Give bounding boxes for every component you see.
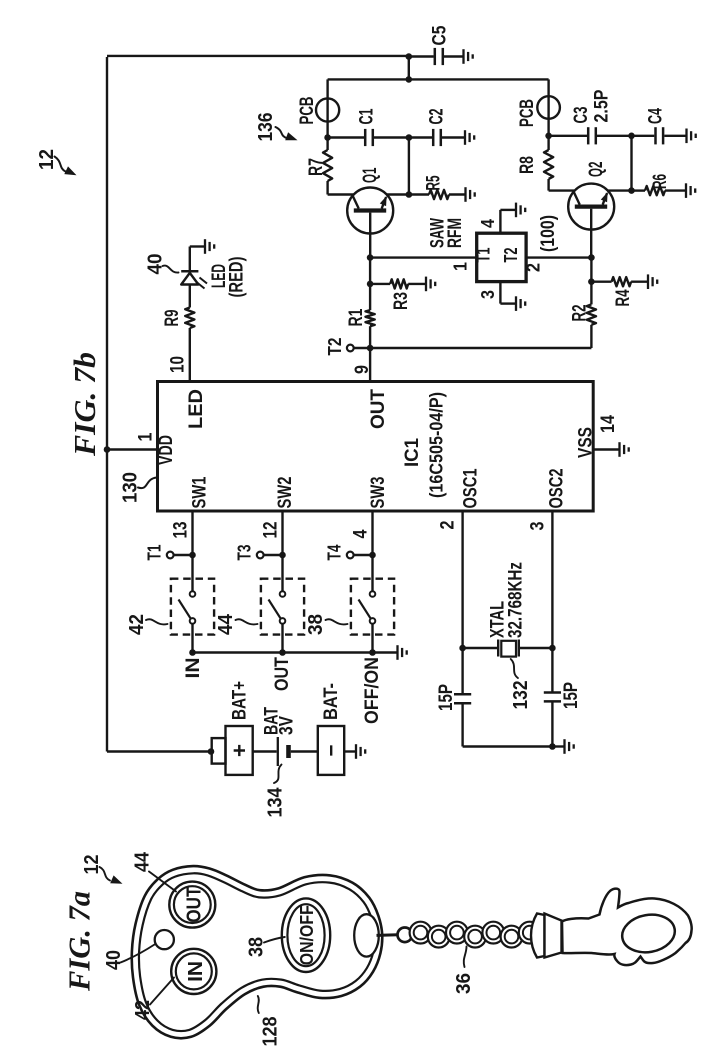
svg-text:2: 2 bbox=[524, 263, 544, 272]
node - C3/C4 junction bbox=[628, 133, 635, 140]
svg-text:Q2: Q2 bbox=[586, 162, 607, 178]
wire - Q1 base down bbox=[369, 213, 371, 258]
svg-text:−: − bbox=[318, 745, 343, 757]
capacitor C1 bbox=[364, 129, 367, 146]
svg-text:12: 12 bbox=[260, 522, 281, 539]
svg-text:OUT: OUT bbox=[368, 389, 389, 429]
svg-text:SW3: SW3 bbox=[368, 477, 389, 509]
terminal T4 bbox=[347, 552, 354, 559]
svg-text:T3: T3 bbox=[235, 545, 255, 561]
wire - SAW pin 2 line bbox=[526, 256, 591, 258]
svg-text:SW1: SW1 bbox=[189, 476, 210, 508]
battery BAT- box bbox=[318, 726, 344, 775]
node - R4 junction bbox=[588, 278, 595, 285]
ground - crystal bbox=[563, 739, 565, 754]
button IN (42) bbox=[171, 949, 216, 994]
node - T1 junction bbox=[189, 552, 196, 559]
transistor Q1 bbox=[347, 188, 393, 234]
svg-text:IN: IN bbox=[185, 961, 207, 982]
svg-text:C1: C1 bbox=[356, 108, 377, 124]
svg-text:12: 12 bbox=[81, 855, 103, 875]
svg-text:FIG. 7a: FIG. 7a bbox=[61, 891, 96, 992]
terminal T1 bbox=[167, 552, 174, 559]
svg-text:128: 128 bbox=[259, 1017, 281, 1047]
wire - IC pin to switch SW2/44 bbox=[281, 511, 283, 591]
node - T3 junction bbox=[279, 552, 286, 559]
svg-text:(RED): (RED) bbox=[226, 257, 247, 298]
svg-text:FIG. 7b: FIG. 7b bbox=[67, 352, 102, 457]
svg-text:OUT: OUT bbox=[184, 887, 206, 923]
svg-text:(100): (100) bbox=[538, 215, 559, 252]
node - rail/pin1 junction bbox=[104, 446, 111, 453]
node - OSC1/XTAL junction bbox=[459, 645, 466, 652]
wire - switch SW1/42 bottom bbox=[191, 624, 193, 653]
svg-text:2.5P: 2.5P bbox=[592, 89, 613, 122]
terminal T3 bbox=[257, 552, 264, 559]
wire - Q1 collector node line bbox=[328, 136, 364, 138]
svg-text:Q1: Q1 bbox=[360, 167, 381, 183]
wire - IC pin to switch SW1/42 bbox=[191, 511, 193, 591]
wire - C3/C4 node down bbox=[630, 136, 632, 191]
node - OSC2/XTAL junction bbox=[549, 645, 556, 652]
key fob body outer outline (128) bbox=[132, 866, 383, 1038]
node - T2/pin9 junction bbox=[367, 345, 374, 352]
svg-text:PCB: PCB bbox=[297, 97, 318, 125]
node - Q2 collector node bbox=[545, 133, 552, 140]
svg-text:PCB: PCB bbox=[517, 99, 538, 127]
resistor R7 bbox=[326, 138, 328, 151]
capacitor C5 bbox=[409, 55, 434, 57]
wire - switch common line bbox=[193, 651, 398, 653]
svg-text:3: 3 bbox=[528, 522, 549, 531]
switch SW2/44 dashed box bbox=[261, 579, 304, 635]
svg-text:40: 40 bbox=[145, 254, 167, 275]
wire - IC pin 2 (OSC1) bbox=[461, 511, 463, 694]
wire - BAT- to ground bbox=[344, 750, 356, 752]
ground - C4 bbox=[685, 129, 687, 144]
node - Q1 emitter node bbox=[406, 191, 413, 198]
wire - base node down bbox=[369, 258, 371, 284]
svg-text:1: 1 bbox=[136, 432, 157, 441]
wire - Q1 PCB coil drop bbox=[326, 79, 328, 137]
transistor Q2 bbox=[568, 184, 614, 230]
node - R3 junction bbox=[367, 281, 374, 288]
clasp body (lobster hook) bbox=[562, 889, 692, 965]
switch SW2/44 contacts bbox=[280, 591, 286, 597]
svg-text:IN: IN bbox=[183, 658, 204, 679]
wire - SAW pin 3 bbox=[499, 282, 501, 304]
svg-text:(16C505-04/P): (16C505-04/P) bbox=[426, 392, 446, 498]
svg-text:R8: R8 bbox=[517, 156, 538, 174]
wire - cell to BAT- bbox=[291, 750, 318, 752]
ground - battery bbox=[355, 744, 357, 759]
svg-text:R1: R1 bbox=[346, 308, 367, 326]
wire - second rail to Q1/Q2 branches bbox=[328, 78, 549, 80]
svg-text:3V: 3V bbox=[276, 716, 297, 735]
ground - SAW pin 3 bbox=[515, 296, 517, 311]
node - SW2/44 common junction bbox=[279, 649, 286, 656]
SAW resonator U1 box bbox=[477, 233, 526, 281]
resistor R2 bbox=[590, 282, 592, 305]
LED D1 (RED) bbox=[181, 273, 198, 285]
wire - LED to ground bbox=[189, 247, 191, 272]
wire - IC pin 14 (VSS) bbox=[593, 448, 619, 450]
inductor - PCB coil antenna (Q2) bbox=[537, 96, 560, 119]
wire - to C2 bbox=[409, 136, 432, 138]
key ring hole bbox=[354, 914, 379, 956]
svg-text:14: 14 bbox=[598, 415, 619, 433]
wire - IC pin to switch SW3/38 bbox=[371, 511, 373, 591]
resistor R6 bbox=[632, 189, 646, 191]
ground - R5 bbox=[464, 187, 466, 202]
svg-text:R2: R2 bbox=[570, 305, 591, 322]
switch SW3/38 dashed box bbox=[351, 579, 394, 635]
svg-text:T2: T2 bbox=[325, 338, 345, 356]
node - VDD/C5 junction bbox=[406, 53, 413, 60]
wire - jog down from C5 node bbox=[408, 57, 410, 80]
terminal T2 bbox=[347, 345, 354, 352]
svg-text:10: 10 bbox=[168, 356, 189, 373]
svg-text:T1: T1 bbox=[474, 248, 494, 263]
ground - C2 bbox=[464, 130, 466, 145]
svg-text:ON/OFF: ON/OFF bbox=[297, 905, 317, 965]
svg-text:IC1: IC1 bbox=[402, 438, 423, 467]
wire - T2 line to R2 bbox=[370, 347, 591, 349]
wire - to C4 bbox=[632, 135, 655, 137]
svg-text:R3: R3 bbox=[391, 292, 412, 310]
button OUT (44) bbox=[169, 882, 215, 928]
svg-text:+: + bbox=[227, 744, 252, 757]
svg-text:BAT-: BAT- bbox=[321, 683, 342, 720]
svg-text:2: 2 bbox=[438, 521, 459, 530]
node - SW3/38 common junction bbox=[369, 649, 376, 656]
crystal XTAL 132 bbox=[463, 647, 499, 649]
battery cell 134 (3V) bbox=[277, 737, 279, 766]
wire - Q1 right to node bbox=[387, 193, 409, 195]
chain small ring bbox=[398, 928, 413, 943]
svg-text:38: 38 bbox=[305, 614, 327, 635]
svg-text:C4: C4 bbox=[645, 108, 666, 124]
wire - C1/C2 node down to emitter node bbox=[408, 138, 410, 195]
node - C1/C2 junction bbox=[406, 134, 413, 141]
svg-text:12: 12 bbox=[36, 149, 58, 170]
svg-text:4: 4 bbox=[350, 529, 371, 538]
clasp eye opening bbox=[619, 911, 678, 957]
svg-text:136: 136 bbox=[255, 113, 277, 142]
resistor R5 bbox=[409, 193, 429, 195]
wire - Q2 base-left connection bbox=[549, 189, 575, 191]
wire - IC pin 3 (OSC2) bbox=[551, 511, 553, 693]
svg-text:T1: T1 bbox=[145, 545, 165, 561]
node - rail2 junction bbox=[406, 76, 413, 83]
wire - IC pin 9 bbox=[369, 348, 371, 382]
battery BAT+ box bbox=[226, 726, 253, 775]
ground - R6 bbox=[685, 183, 687, 198]
svg-text:44: 44 bbox=[132, 851, 154, 872]
node - bottom junction bbox=[549, 743, 556, 750]
chain connector bar bbox=[377, 933, 399, 937]
svg-text:VSS: VSS bbox=[576, 427, 597, 458]
wire - Q1 base-left connection bbox=[328, 193, 354, 195]
resistor R8 bbox=[547, 136, 549, 150]
node - Q2 emitter node bbox=[628, 187, 635, 194]
wire - rail to battery bbox=[107, 750, 212, 752]
ground - R4 bbox=[647, 274, 649, 289]
svg-text:42: 42 bbox=[126, 614, 148, 635]
wire - Q2 base down bbox=[590, 209, 592, 258]
node - Q1 collector node bbox=[324, 134, 331, 141]
capacitor C3 bbox=[587, 127, 590, 144]
wire - IC pin 10 / LED branch bbox=[189, 328, 191, 382]
svg-text:15P: 15P bbox=[561, 682, 582, 709]
svg-text:OSC2: OSC2 bbox=[547, 469, 568, 509]
svg-text:13: 13 bbox=[170, 522, 191, 539]
svg-text:OFF/ON: OFF/ON bbox=[362, 657, 383, 724]
svg-text:R4: R4 bbox=[613, 289, 634, 306]
capacitor C2 bbox=[432, 129, 435, 146]
svg-text:40: 40 bbox=[103, 950, 125, 970]
svg-text:R5: R5 bbox=[424, 175, 445, 190]
svg-text:32.768KHz: 32.768KHz bbox=[505, 562, 526, 638]
resistor R4 bbox=[591, 281, 611, 283]
capacitor 15P (left) bbox=[454, 693, 471, 696]
ground - R3 bbox=[425, 277, 427, 292]
wire - switch SW3/38 bottom bbox=[371, 624, 373, 653]
resistor R3 bbox=[370, 283, 390, 285]
node - Q1 base node bbox=[367, 254, 374, 261]
wire - crystal bottom line bbox=[463, 745, 553, 747]
svg-text:44: 44 bbox=[215, 613, 237, 635]
svg-text:15P: 15P bbox=[436, 684, 457, 711]
svg-text:132: 132 bbox=[510, 681, 532, 710]
inductor - PCB coil antenna (Q1) bbox=[316, 98, 339, 121]
svg-text:134: 134 bbox=[265, 787, 287, 818]
battery holder tab bbox=[212, 738, 226, 764]
LED lens (40) bbox=[155, 930, 174, 949]
svg-text:OUT: OUT bbox=[272, 657, 293, 691]
node - Q2 base node bbox=[588, 254, 595, 261]
svg-text:R7: R7 bbox=[306, 158, 327, 176]
node - SW1/42 common junction bbox=[189, 649, 196, 656]
svg-text:R9: R9 bbox=[162, 310, 183, 327]
switch SW1/42 dashed box bbox=[171, 579, 214, 635]
svg-text:3: 3 bbox=[478, 290, 498, 299]
wire - Q2 base node down bbox=[590, 258, 592, 282]
wire - VDD top rail bbox=[107, 55, 409, 57]
svg-text:VDD: VDD bbox=[156, 435, 177, 465]
wire - BAT+ to cell bbox=[253, 750, 277, 752]
ground - LED bbox=[204, 239, 206, 254]
IC1 box bbox=[158, 382, 594, 512]
wire - Q2 PCB coil drop bbox=[547, 79, 549, 135]
wire - Q2 collector node line bbox=[549, 135, 587, 137]
switch SW1/42 contacts bbox=[190, 591, 196, 597]
clasp collar bbox=[531, 914, 545, 958]
svg-text:LED: LED bbox=[186, 389, 207, 429]
svg-text:C5: C5 bbox=[429, 25, 450, 45]
svg-text:C2: C2 bbox=[427, 109, 448, 125]
ground - switch common bbox=[396, 645, 398, 660]
svg-text:1: 1 bbox=[450, 262, 470, 271]
svg-text:BAT+: BAT+ bbox=[229, 681, 250, 720]
wire - SAW pin 1 line bbox=[370, 256, 477, 258]
resistor R9 bbox=[185, 308, 194, 329]
svg-text:C3: C3 bbox=[571, 107, 592, 124]
svg-text:SW2: SW2 bbox=[275, 477, 296, 509]
svg-text:R6: R6 bbox=[650, 174, 671, 189]
svg-text:T2: T2 bbox=[501, 248, 521, 263]
ground - C5 bbox=[462, 49, 464, 64]
wire - switch SW2/44 bottom bbox=[281, 624, 283, 653]
svg-text:T4: T4 bbox=[325, 545, 345, 561]
key fob body inner outline bbox=[139, 873, 375, 1031]
svg-text:RFM: RFM bbox=[445, 218, 466, 248]
svg-text:9: 9 bbox=[352, 365, 373, 374]
wire - SAW pin 4 bbox=[499, 210, 501, 233]
capacitor 15P (right) bbox=[544, 691, 561, 694]
switch SW3/38 contacts bbox=[370, 591, 376, 597]
chain links (36) bbox=[410, 922, 432, 944]
wire - Q2 right to node bbox=[608, 189, 632, 191]
resistor R1 bbox=[369, 284, 371, 310]
capacitor C4 bbox=[654, 127, 657, 144]
node - T4 junction bbox=[369, 552, 376, 559]
wire - IC pin 1 (VDD) bbox=[107, 448, 158, 450]
wire - VDD left rail (portrait vertical) bbox=[106, 57, 108, 752]
svg-text:36: 36 bbox=[453, 973, 475, 994]
svg-text:OSC1: OSC1 bbox=[461, 468, 482, 508]
button ON/OFF (38) bbox=[282, 898, 330, 972]
ground - SAW pin 4 bbox=[515, 203, 517, 218]
svg-text:4: 4 bbox=[478, 219, 498, 228]
ground - VSS bbox=[618, 442, 620, 457]
node - battery junction bbox=[208, 748, 215, 755]
svg-text:38: 38 bbox=[246, 937, 268, 957]
